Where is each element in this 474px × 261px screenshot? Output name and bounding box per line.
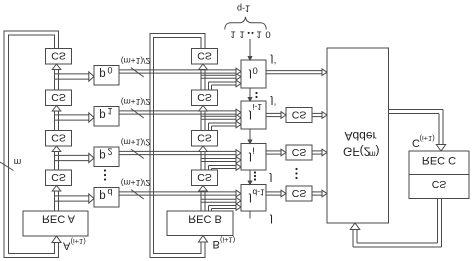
svg-text:CS: CS: [197, 171, 212, 183]
REC B register box: [167, 211, 233, 236]
svg-text:m: m: [14, 157, 22, 167]
svg-text:): ): [376, 145, 380, 159]
bit label at J0 input arrow: [270, 54, 274, 66]
bus adder to REC C: [389, 109, 444, 111]
svg-text:(m+1)/2: (m+1)/2: [121, 56, 151, 66]
multiplier block p2: [94, 147, 119, 167]
svg-text:CS: CS: [51, 171, 66, 183]
wire B chain segment row 2 with arrow into CS B3: [200, 152, 202, 171]
svg-text:CS: CS: [197, 91, 212, 103]
svg-text:1: 1: [108, 106, 113, 116]
wire B chain segment row 3 with arrow into CS B4: [200, 191, 202, 211]
multiplier block p0: [94, 66, 119, 86]
control bits 1 1 .. 1 0: [230, 28, 235, 39]
svg-text:(m+1)/2: (m+1)/2: [121, 97, 151, 107]
wire A chain segment row 2 with arrow into CS A3: [54, 152, 56, 171]
bus from p block to J block row 2: [119, 150, 236, 152]
arrow into REC B bottom from feedback loop: [200, 242, 202, 244]
wire A chain segment row 3 with arrow into CS A4: [54, 191, 56, 211]
svg-text:0: 0: [265, 28, 270, 39]
svg-text:(m+1)/2: (m+1)/2: [121, 138, 151, 148]
wire B chain segment row 1 with arrow into CS B2: [200, 111, 202, 131]
bus width slash row 2: [131, 149, 144, 158]
svg-text:i-1: i-1: [253, 102, 263, 112]
svg-text:CS: CS: [292, 146, 307, 158]
svg-text:ȷ: ȷ: [270, 54, 274, 66]
wire B chain segment row 0 with arrow into CS B1: [200, 70, 202, 91]
adder label line 1: [344, 129, 376, 143]
cyclic-shift box CS C3: [286, 186, 312, 201]
CS box under REC C: [409, 175, 469, 199]
svg-text:GF(2: GF(2: [343, 145, 371, 159]
label (m+1)/2 row 0: [121, 56, 151, 66]
REC C register box: [409, 151, 469, 175]
feedback bus REC C to adder bottom: [437, 199, 439, 244]
ellipsis between CS C2 and CS C3: [295, 168, 297, 170]
svg-text:p: p: [99, 108, 105, 120]
bus B chain tap to J block row 1 middle input: [201, 115, 236, 117]
bus tap into multiplier block row 3: [55, 195, 89, 197]
bus B chain tap to J block row 2 middle input: [201, 158, 236, 160]
label C(i+1): [412, 134, 435, 149]
arrow into adder bottom: [352, 230, 354, 248]
svg-text:1: 1: [239, 28, 244, 39]
svg-text:REC C: REC C: [422, 154, 456, 166]
bus from CS below to J block row 0 bottom input: [208, 82, 210, 90]
bit label at Jd-1 output stub: [269, 214, 273, 226]
cyclic-shift box CS B1: [192, 49, 218, 65]
adder GF(2^m) box: [327, 48, 389, 223]
svg-text:d: d: [108, 187, 113, 197]
svg-text:CS: CS: [51, 132, 66, 144]
A register feedback loop outer wire: [4, 31, 59, 258]
label B(i+1): [213, 236, 236, 251]
bus CS C2 to adder: [312, 150, 322, 152]
wire A chain segment row 0 with arrow into CS A1: [54, 70, 56, 91]
bus from p block to J block row 0: [119, 69, 236, 71]
cyclic-shift box CS B4: [192, 170, 218, 186]
svg-text:CS: CS: [51, 50, 66, 62]
svg-text:ȷ: ȷ: [269, 214, 273, 226]
ellipsis between p2 and pd blocks: [104, 169, 106, 171]
svg-text:d-1: d-1: [253, 187, 266, 197]
thin carry arrow Ji to Jd-1: [249, 170, 251, 185]
svg-text:p: p: [99, 67, 105, 79]
cyclic-shift box CS A2: [46, 90, 72, 106]
label (m+1)/2 row 1: [121, 97, 151, 107]
thin carry arrow J0 to Ji-1: [249, 88, 251, 101]
bus from CS below to J block row 2 bottom input: [208, 166, 210, 171]
bit label at Ji-Jd-1 carry arrow: [269, 173, 273, 185]
adder label line 2: [343, 145, 380, 159]
cyclic-shift box CS C2: [286, 145, 312, 160]
bus from CS below to J block row 3 bottom input: [208, 206, 210, 212]
bus from CS below to J block row 1 bottom input: [208, 123, 210, 131]
svg-text:Adder: Adder: [344, 129, 376, 143]
B register feedback loop outer wire: [150, 34, 205, 258]
bus CS C3 to adder: [312, 191, 322, 193]
svg-text:ȷ: ȷ: [248, 110, 252, 124]
svg-text:(i+1): (i+1): [220, 236, 236, 245]
bus tap into multiplier block row 2: [55, 154, 89, 156]
bit label at J0-Ji-1 carry arrow: [270, 96, 274, 108]
ellipsis between Ji and Jd-1: [254, 171, 256, 173]
svg-text:(m+1)/2: (m+1)/2: [121, 178, 151, 188]
cyclic-shift box CS B3: [192, 131, 218, 147]
cyclic-shift box CS B2: [192, 90, 218, 106]
cyclic-shift box CS A4: [46, 170, 72, 186]
REC A register box: [23, 211, 88, 236]
bus tap into multiplier block row 0: [55, 73, 89, 75]
svg-text:CS: CS: [432, 178, 447, 190]
svg-text:B: B: [213, 238, 220, 250]
J cell block row 0: [241, 60, 266, 88]
svg-text:0: 0: [108, 65, 113, 75]
bus tap into multiplier block row 1: [55, 114, 89, 116]
svg-text:CS: CS: [197, 50, 212, 62]
bus J block to CS C3: [266, 191, 281, 193]
label m on A loop: [14, 157, 22, 167]
bus CS C1 to adder: [312, 112, 322, 114]
bus width slash row 1: [131, 109, 144, 118]
svg-text:i: i: [253, 144, 255, 155]
svg-text:ȷ: ȷ: [269, 173, 273, 185]
bus from p block to J block row 3: [119, 191, 236, 193]
bus J block to CS C1: [266, 112, 281, 114]
multiplier block p1: [94, 107, 119, 127]
bus width slash on A loop: [0, 162, 14, 171]
ellipsis between J0 and Ji-1: [255, 92, 257, 94]
label q-1 above brace: [237, 4, 250, 14]
thin output stub below Jd-1: [249, 211, 251, 219]
bus J block to CS C2: [266, 150, 281, 152]
cyclic-shift box CS A3: [46, 131, 72, 147]
A register feedback loop inner wire: [9, 35, 55, 254]
J cell block row 2: [241, 144, 266, 171]
svg-text:CS: CS: [292, 187, 307, 199]
bus J block row 0 direct to adder: [266, 70, 322, 72]
svg-text:0: 0: [253, 65, 258, 76]
svg-text:CS: CS: [292, 108, 307, 120]
svg-text:CS: CS: [197, 132, 212, 144]
svg-text:(i+1): (i+1): [71, 237, 87, 246]
J cell block row 1: [241, 101, 266, 129]
arrow into REC A bottom from feedback loop: [54, 243, 56, 245]
B register feedback loop inner wire: [154, 38, 202, 254]
cyclic-shift box CS C1: [286, 108, 312, 123]
wire A chain segment row 1 with arrow into CS A2: [54, 111, 56, 131]
svg-text:ȷ: ȷ: [270, 96, 274, 108]
bus width slash row 3: [131, 190, 144, 199]
label A(i+1): [63, 237, 86, 252]
svg-text:REC B: REC B: [188, 213, 222, 225]
curly brace over control bits: [225, 17, 266, 30]
svg-text:1: 1: [256, 28, 261, 39]
J cell block row 3: [241, 185, 266, 212]
bus width slash row 0: [131, 68, 144, 77]
svg-text:ȷ: ȷ: [248, 69, 252, 83]
thin carry arrow Ji-1 to Ji: [249, 129, 251, 144]
svg-text:,: ,: [274, 55, 277, 65]
label (m+1)/2 row 3: [121, 178, 151, 188]
svg-text:REC A: REC A: [42, 213, 76, 225]
svg-text:ȷ: ȷ: [248, 152, 252, 166]
bus from p block to J block row 1: [119, 110, 236, 112]
svg-text:p: p: [99, 149, 105, 161]
svg-text:p: p: [99, 189, 105, 201]
svg-text:2: 2: [108, 146, 113, 156]
svg-text:,: ,: [274, 96, 277, 106]
thin arrow from control bits into J block row 0: [249, 39, 251, 60]
label (m+1)/2 row 2: [121, 138, 151, 148]
bus B chain tap to J block row 3 middle input: [201, 198, 236, 200]
svg-text:1: 1: [230, 28, 235, 39]
svg-text:(i+1): (i+1): [420, 134, 436, 143]
multiplier block pd: [94, 188, 119, 208]
cyclic-shift box CS A1: [46, 49, 72, 65]
svg-text:CS: CS: [51, 91, 66, 103]
bus B chain tap to J block row 0 middle input: [201, 74, 236, 76]
svg-text:q-1: q-1: [237, 4, 250, 14]
svg-text:ȷ: ȷ: [248, 193, 252, 207]
